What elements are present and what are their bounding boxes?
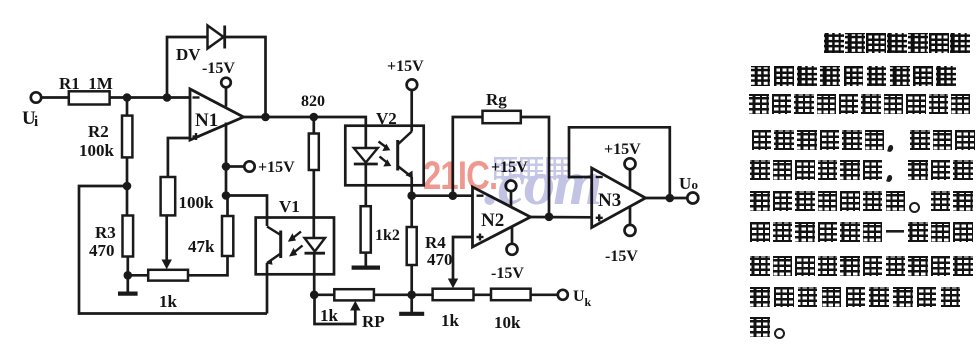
op-amp N2 <box>473 187 531 247</box>
node N2 output junction <box>545 213 554 222</box>
wire -15V into N2 <box>511 227 514 244</box>
pin plus N2 <box>477 236 484 238</box>
optocoupler V1 package <box>256 218 334 275</box>
terminal +15V of N2 <box>506 181 517 192</box>
node input junction (R2 top) <box>123 93 132 102</box>
svg-text:+15V: +15V <box>604 141 641 158</box>
wire V1 emitter down to loop <box>266 263 269 314</box>
terminal +15V of N1 <box>244 161 254 171</box>
svg-text:47k: 47k <box>188 237 215 256</box>
terminal -15V of N3 <box>625 225 636 236</box>
svg-text:V2: V2 <box>376 109 397 128</box>
node V2 emitter junction <box>407 191 416 200</box>
wire N1 output run <box>244 116 314 119</box>
wire N1 bottom supply down <box>225 123 228 196</box>
wire DV feedback loop left+top <box>167 37 208 98</box>
pin minus N3 <box>596 176 603 178</box>
resistor 820 <box>309 134 319 171</box>
potentiometer 1k (N2 side) <box>412 293 433 296</box>
wiper arrow from 100k onto 1k pot <box>165 215 168 261</box>
terminal Uo <box>687 193 698 204</box>
wire +15V into N2 <box>510 191 513 207</box>
svg-text:1k2: 1k2 <box>375 227 400 244</box>
wire V2 LED cathode to 1k2 <box>364 163 367 207</box>
svg-text:1k: 1k <box>320 306 339 325</box>
LED of V1 <box>305 238 326 252</box>
wire left feedback loop <box>79 186 267 314</box>
svg-text:k: k <box>585 295 592 309</box>
Chinese caption text block <box>824 33 971 53</box>
svg-text:N2: N2 <box>481 210 504 231</box>
light arrows of V2 <box>379 142 388 164</box>
wire N3 output to Uo <box>646 197 688 200</box>
svg-text:N1: N1 <box>195 110 218 131</box>
wire V2 emitter down <box>410 177 413 196</box>
optocoupler V2 package <box>345 126 423 186</box>
node 820 junction on N1 output <box>310 113 319 122</box>
wire -15V to N1 top <box>225 88 228 107</box>
svg-text:R2: R2 <box>88 122 109 141</box>
svg-text:RP: RP <box>362 312 385 331</box>
terminal -15V of N1 <box>221 78 231 88</box>
ground below 1k2 <box>364 253 367 266</box>
terminal +15V of N3 <box>625 158 636 169</box>
ground below R3 <box>126 275 129 292</box>
resistor 1k2 <box>361 206 371 252</box>
svg-text:U: U <box>679 174 691 193</box>
op-amp N3 <box>592 168 646 228</box>
svg-text:V1: V1 <box>279 197 300 216</box>
svg-text:1k: 1k <box>159 292 178 311</box>
potentiometer RP 1k <box>314 293 334 296</box>
svg-text:DV: DV <box>176 45 201 64</box>
node R2-R3 junction <box>123 182 132 191</box>
potentiometer 1k (left) <box>148 270 188 281</box>
node +15V junction <box>222 162 231 171</box>
svg-text:R1 1M: R1 1M <box>59 74 113 93</box>
svg-text:470: 470 <box>427 250 453 269</box>
node DV loop junction <box>163 93 172 102</box>
svg-text:100k: 100k <box>79 141 115 160</box>
resistor Rg feedback <box>453 117 483 196</box>
terminal +15V of V2 <box>407 79 418 90</box>
node Rg junction <box>449 191 458 200</box>
svg-text:o: o <box>692 177 699 192</box>
wire DV loop top right + down to output <box>225 37 266 117</box>
pin minus N2 <box>477 194 484 196</box>
svg-text:U: U <box>573 288 585 305</box>
svg-text:Rg: Rg <box>486 90 507 109</box>
svg-text:N3: N3 <box>598 190 621 211</box>
wire +15V into N3 <box>629 169 632 189</box>
svg-text:100k: 100k <box>179 193 215 212</box>
resistor R4 <box>410 196 413 227</box>
svg-text:-15V: -15V <box>202 60 235 77</box>
wire R3 junction to 1k pot <box>128 274 148 277</box>
node V1 collector net junction <box>222 191 231 200</box>
wiper of RP tied to left end <box>350 301 360 311</box>
wire +15V node to V1 collector <box>226 196 267 227</box>
terminal Ui (input) <box>31 92 41 102</box>
svg-text:-15V: -15V <box>605 248 638 265</box>
wire V1 LED cathode down <box>313 253 316 295</box>
light arrows of V1 <box>291 232 303 255</box>
terminal Uk <box>558 290 568 300</box>
svg-text:1k: 1k <box>441 311 460 330</box>
wire Rg right to N2 output <box>521 117 549 217</box>
wire 10k to Uk terminal <box>531 293 558 296</box>
resistor R3 <box>126 186 129 216</box>
wire N2 output to N3 plus input <box>531 216 592 219</box>
wire N2 inverting input net <box>412 194 473 197</box>
phototransistor of V1 <box>279 231 282 259</box>
pin plus N3 <box>596 217 603 219</box>
diode DV <box>208 26 224 49</box>
wire pot to 10k <box>474 293 492 296</box>
node DV to N1 output junction <box>261 113 270 122</box>
terminal -15V of N2 <box>507 244 518 255</box>
node R4 bottom junction <box>407 291 416 300</box>
node V1 cathode / RP junction <box>310 291 319 300</box>
LED of V2 <box>354 148 378 163</box>
node R3 bottom junction <box>124 271 133 280</box>
phototransistor of V2 <box>396 140 399 171</box>
node N3 output junction <box>666 194 675 203</box>
pin minus N1 <box>193 96 200 98</box>
resistor R1 <box>69 91 110 104</box>
wire 1k pot to 47k bottom <box>188 256 228 275</box>
svg-text:i: i <box>34 114 38 130</box>
wire N3 feedback loop <box>569 127 670 198</box>
wire N2 plus input to pot wiper <box>453 237 473 280</box>
resistor 10k <box>491 289 531 301</box>
resistor 47k <box>226 196 229 217</box>
svg-text:470: 470 <box>89 241 115 260</box>
svg-text:+15V: +15V <box>258 159 295 176</box>
svg-text:+15V: +15V <box>491 159 528 176</box>
wire 820 to V1 LED anode <box>312 117 315 134</box>
wire R1 to N1 inverting input <box>110 96 190 99</box>
svg-text:+15V: +15V <box>387 58 424 75</box>
svg-text:10k: 10k <box>494 313 521 332</box>
resistor 100k (feedback divider) <box>168 138 190 177</box>
wire RP to R4 junction <box>374 293 412 296</box>
svg-text:R3: R3 <box>95 223 116 242</box>
wire V2 collector to +15V <box>410 90 413 132</box>
op-amp N1 <box>190 89 244 140</box>
wire -15V into N3 <box>629 206 632 225</box>
svg-text:820: 820 <box>301 93 325 110</box>
ground below R4 junction <box>410 295 413 312</box>
wire 820 resistor to LED <box>312 170 315 238</box>
wire Ui to R1 <box>41 96 69 99</box>
pin plus N1 <box>193 135 200 137</box>
wire to +15V terminal <box>230 165 244 168</box>
resistor R2 <box>126 98 129 116</box>
svg-text:-15V: -15V <box>491 265 524 282</box>
